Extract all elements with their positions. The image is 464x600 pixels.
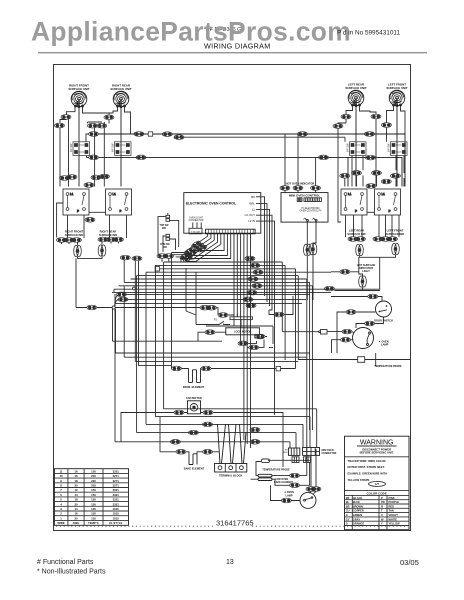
- terminal block funnels: [218, 424, 247, 464]
- svg-text:3271: 3271: [113, 484, 120, 488]
- wire B1 bottom stubs: [68, 215, 127, 238]
- connector bake right: [203, 450, 213, 455]
- long bus upper: [99, 134, 405, 187]
- wire SW3 drop: [352, 156, 363, 187]
- lock switch assembly: [214, 319, 230, 326]
- wire stack left drops: [124, 260, 138, 366]
- svg-text:INF SW: INF SW: [388, 143, 391, 152]
- svg-text:2: 2: [60, 512, 62, 516]
- connector oven lamp a: [281, 498, 291, 503]
- staircase turn 4: [137, 433, 296, 448]
- surface unit SU2 right rear: [113, 91, 129, 107]
- svg-text:INF SW: INF SW: [347, 143, 350, 152]
- svg-text:COLOR CODE: COLOR CODE: [367, 491, 387, 495]
- svg-text:GREEN: GREEN: [353, 513, 362, 517]
- connector row L f: [114, 237, 124, 242]
- temperature probe upper plug: [298, 357, 364, 363]
- color code r7: [346, 522, 400, 526]
- svg-text:SURFACE UNIT: SURFACE UNIT: [345, 86, 367, 90]
- mid horizontal 1: [113, 340, 223, 342]
- svg-text:6: 6: [60, 493, 62, 497]
- svg-text:5: 5: [60, 498, 62, 502]
- connector above B4: [381, 179, 391, 184]
- mid horizontal 3: [124, 356, 307, 358]
- connector pre-switch row d: [100, 174, 110, 179]
- svg-text:P: P: [381, 496, 383, 500]
- svg-text:P: P: [312, 219, 314, 221]
- svg-text:IND: IND: [162, 228, 166, 230]
- wire SU1 right to SU2: [69, 107, 110, 187]
- svg-text:200: 200: [91, 484, 96, 488]
- svg-text:3271: 3271: [113, 479, 120, 483]
- connector row L a: [57, 238, 67, 243]
- svg-text:3271: 3271: [113, 474, 120, 478]
- svg-text:105: 105: [91, 516, 96, 520]
- svg-text:3321: 3321: [113, 502, 120, 506]
- svg-text:O: O: [346, 522, 348, 526]
- connector row L b: [64, 238, 74, 243]
- svg-text:PINK: PINK: [389, 496, 395, 500]
- svg-text:TOP SW: TOP SW: [160, 225, 170, 227]
- svg-text:LAMP: LAMP: [381, 343, 389, 347]
- wire gauge table: [54, 469, 128, 526]
- connector door bottom: [365, 321, 375, 326]
- bus line 9: [114, 288, 379, 290]
- ladder connector 2: [250, 263, 260, 268]
- wire SU4 center drop: [396, 106, 398, 187]
- svg-text:BL: BL: [346, 500, 350, 504]
- svg-text:P DIODE: P DIODE: [191, 231, 200, 233]
- infinite switch SW4: [391, 142, 408, 156]
- connector preB3 b: [352, 171, 362, 176]
- connector SU3 a: [341, 114, 351, 119]
- staircase turn 1: [164, 409, 317, 448]
- svg-text:AppliancePartsPros.com: AppliancePartsPros.com: [31, 17, 351, 47]
- svg-text:GRAY: GRAY: [353, 517, 361, 521]
- oven lamp circle: [300, 492, 316, 508]
- EOC strip fanout down: [234, 234, 251, 448]
- EOC strip fanout mid: [181, 234, 231, 262]
- junction square broil: [276, 367, 280, 371]
- connector SU1 b: [55, 123, 65, 128]
- svg-text:* Non-Illustrated Parts: * Non-Illustrated Parts: [37, 569, 106, 576]
- svg-text:CU: CU: [346, 509, 350, 513]
- connector door switch: [346, 310, 356, 315]
- SU1 terminals: [75, 105, 84, 108]
- svg-text:BROWN: BROWN: [353, 504, 363, 508]
- connector lock e: [238, 341, 248, 346]
- oven light terminals: [367, 332, 371, 346]
- wire oven lamp: [271, 449, 317, 501]
- door switch S1: [376, 301, 392, 317]
- staircase turn 3: [146, 424, 303, 447]
- connector node left: [87, 305, 97, 310]
- svg-text:SURFACE IND: SURFACE IND: [99, 233, 117, 237]
- svg-text:BAKE ELEMENT: BAKE ELEMENT: [184, 466, 205, 470]
- svg-text:LOCK MOTOR: LOCK MOTOR: [234, 330, 252, 334]
- bus line 8: [119, 286, 313, 430]
- wire SU3 left drop: [338, 106, 353, 223]
- wire fan: [121, 413, 283, 454]
- connector lock d: [205, 330, 215, 335]
- svg-text:Y: Y: [381, 522, 383, 526]
- indicator lamp IL1: [74, 245, 82, 256]
- connector preB3 a: [340, 174, 350, 179]
- svg-text:YELLOW STRIPE: YELLOW STRIPE: [348, 478, 370, 482]
- EOC pin leaders: [256, 197, 261, 221]
- cascade connector 3: [179, 252, 190, 261]
- svg-text:18: 18: [74, 498, 78, 502]
- wire lock motor right: [241, 337, 267, 348]
- dotted leader line: [56, 525, 408, 527]
- svg-text:P8: P8: [285, 450, 288, 452]
- svg-text:TEMP°C: TEMP°C: [88, 521, 99, 525]
- svg-text:ORANGE: ORANGE: [353, 522, 365, 526]
- wire lamp U connect right: [360, 255, 396, 257]
- cascade connector 4b: [184, 247, 195, 256]
- wire preB3: [345, 175, 377, 186]
- connector MOC b: [293, 186, 303, 191]
- wire gauge rows: [57, 469, 122, 525]
- svg-text:BTM SW: BTM SW: [160, 244, 170, 246]
- svg-text:TEMPERATURE PROBE: TEMPERATURE PROBE: [374, 365, 402, 368]
- connector pre-switch row c: [91, 175, 101, 180]
- wire bake: [160, 417, 219, 454]
- svg-text:AWG: AWG: [73, 521, 80, 525]
- switch sq component: [319, 330, 327, 335]
- wire bus lower stub: [87, 156, 89, 158]
- ladder connector 7: [243, 297, 253, 302]
- cascade connector 3b: [197, 244, 208, 253]
- fan motor box: [188, 401, 201, 414]
- wire B1 left exit: [57, 203, 63, 238]
- ladder connector 5: [252, 284, 262, 289]
- connector bus upper left: [89, 132, 99, 137]
- bus left bends: [114, 262, 164, 442]
- bus line 6: [131, 279, 307, 476]
- connector row L e: [106, 237, 116, 242]
- connector between units: [84, 183, 94, 188]
- wire B3 B4 bridge: [367, 211, 375, 213]
- cascade connector 1: [191, 240, 202, 249]
- svg-text:TRACER WIRE: WIRE COLOR: TRACER WIRE: WIRE COLOR: [348, 459, 386, 463]
- svg-text:7: 7: [60, 488, 62, 492]
- indicator lamp MOC b: [309, 244, 317, 255]
- bus line 3: [160, 269, 296, 369]
- bus line 7: [124, 282, 309, 430]
- connector plugs bottom a: [157, 254, 167, 259]
- connector bottom row e: [203, 422, 213, 427]
- surface unit SU1 right front: [71, 91, 87, 107]
- svg-text:150: 150: [91, 469, 96, 473]
- wire lock c: [206, 315, 273, 347]
- svg-text:16: 16: [74, 469, 78, 473]
- svg-text:IND: IND: [163, 247, 167, 249]
- connector MOC c: [311, 186, 321, 191]
- wire door switch: [337, 312, 384, 353]
- mid horizontal 5: [139, 365, 172, 367]
- wire MOC feeds: [285, 134, 316, 193]
- svg-text:WHITE: WHITE: [389, 517, 398, 521]
- svg-text:3321: 3321: [113, 498, 120, 502]
- oven light circle: [353, 328, 374, 349]
- cascade connector 2: [194, 242, 205, 251]
- connector lowoven b: [290, 483, 300, 488]
- svg-text:200: 200: [91, 474, 96, 478]
- junction square bus3: [155, 267, 159, 271]
- staircase turn 5: [115, 442, 290, 448]
- node feed wire: [76, 307, 112, 309]
- svg-text:TO ELECTRONIC: TO ELECTRONIC: [301, 208, 320, 210]
- SU4 terminals: [393, 104, 402, 107]
- wire bus stub: [86, 134, 89, 142]
- svg-text:NOTED FIRST, STRIPE NEXT.: NOTED FIRST, STRIPE NEXT.: [348, 465, 385, 469]
- svg-text:INF SW: INF SW: [70, 143, 73, 152]
- svg-text:105: 105: [91, 507, 96, 511]
- svg-text:BROIL ELEMENT: BROIL ELEMENT: [183, 385, 205, 389]
- color code r6: [346, 517, 397, 521]
- infinite switch SW1: [73, 142, 90, 156]
- svg-text:16: 16: [74, 474, 78, 478]
- warning GY oval: [369, 481, 386, 486]
- wire pair mid: [88, 122, 105, 187]
- connector pre-switch row a: [60, 176, 70, 181]
- switch block B2: [106, 189, 132, 215]
- connector lock g: [255, 334, 265, 339]
- mid horizontal 4: [135, 360, 298, 362]
- svg-text:150: 150: [91, 488, 96, 492]
- connector SU1 a: [61, 115, 71, 120]
- svg-text:# Functional Parts: # Functional Parts: [37, 559, 94, 566]
- svg-text:GY: GY: [346, 517, 350, 521]
- svg-text:T: T: [381, 509, 383, 513]
- color code r2: [346, 500, 399, 504]
- wire lamp feeds: [62, 242, 119, 245]
- warning box: [345, 436, 410, 530]
- infinite switch SW2: [115, 142, 132, 156]
- svg-text:MINI OVEN CONTROL: MINI OVEN CONTROL: [289, 194, 321, 198]
- svg-text:12: 12: [74, 488, 78, 492]
- warning title underline: [357, 445, 397, 447]
- connector row R a: [348, 237, 358, 242]
- connector row L c: [72, 238, 82, 243]
- wire SU1 left drop: [60, 107, 75, 187]
- connector oven light a: [342, 329, 352, 334]
- connector bus upper m2: [298, 132, 308, 137]
- junction circle b: [133, 287, 136, 290]
- svg-text:1015: 1015: [113, 512, 120, 516]
- svg-text:105: 105: [91, 512, 96, 516]
- svg-text:9: 9: [60, 479, 62, 483]
- svg-text:P: P: [303, 219, 305, 221]
- connector below HSI: [325, 286, 335, 291]
- wire cascade to broil: [171, 253, 173, 369]
- connector HSI bottom: [368, 294, 378, 299]
- lock motor terminals: [255, 335, 263, 338]
- plug connector A: [166, 213, 170, 221]
- bus line 5: [137, 276, 299, 360]
- wire lock right: [269, 296, 293, 315]
- svg-text:10: 10: [59, 474, 63, 478]
- switch block B4: [375, 189, 401, 215]
- svg-text:3: 3: [60, 507, 62, 511]
- connector bus upper m1b: [162, 132, 172, 137]
- color code r3: [346, 504, 394, 508]
- svg-text:1015: 1015: [113, 507, 120, 511]
- EOC connector strip: [206, 229, 256, 234]
- staircase turn 2: [156, 417, 311, 448]
- svg-text:YELLOW: YELLOW: [389, 522, 401, 526]
- svg-text:G/Y: G/Y: [375, 482, 380, 486]
- MOC terminals: [303, 218, 317, 221]
- connector bus upper m3: [365, 132, 375, 137]
- svg-text:SURFACE IND: SURFACE IND: [65, 233, 83, 237]
- connector bake left: [176, 450, 186, 455]
- svg-text:SURFACE IND: SURFACE IND: [347, 232, 365, 236]
- terminal block: [215, 464, 247, 473]
- connector row R e: [388, 237, 398, 242]
- connector broil right: [201, 366, 211, 371]
- connector fan right: [203, 410, 213, 415]
- svg-text:LO OUT: LO OUT: [245, 213, 256, 217]
- svg-text:16: 16: [74, 512, 78, 516]
- svg-text:SURFACE UNIT: SURFACE UNIT: [386, 86, 408, 90]
- connector SU3 b: [333, 124, 343, 129]
- temperature probe lower plug: [262, 454, 311, 468]
- wire lowoven: [251, 462, 310, 486]
- EOC p-diode box: [189, 228, 202, 234]
- connector SU4 a: [382, 123, 392, 128]
- indicator lamp IL4: [392, 243, 400, 254]
- svg-text:HOT OVEN INDICATOR: HOT OVEN INDICATOR: [286, 182, 315, 186]
- svg-text:UL STYLE: UL STYLE: [109, 521, 123, 525]
- ladder connector 4: [248, 277, 258, 282]
- MOC hatch connector b: [304, 198, 321, 202]
- connector below B1: [85, 218, 95, 223]
- switch block B3: [341, 189, 367, 215]
- svg-text:WIRING DIAGRAM: WIRING DIAGRAM: [204, 42, 271, 51]
- infinite switch SW3: [350, 142, 367, 156]
- svg-text:3321: 3321: [113, 469, 120, 473]
- header rule: [38, 52, 427, 54]
- connector bus upper m1: [134, 132, 144, 137]
- wire node drops: [113, 309, 116, 353]
- schematic border: [54, 65, 411, 531]
- surface unit SU4 left front: [389, 90, 405, 106]
- wire lock ab: [186, 268, 218, 325]
- wire SU4 right: [401, 106, 406, 135]
- wire plug left: [158, 217, 166, 256]
- svg-text:20: 20: [74, 484, 78, 488]
- mid horizontal 2: [116, 352, 310, 354]
- bus line 4: [146, 271, 331, 273]
- svg-text:3321: 3321: [113, 493, 120, 497]
- EOC strip fanout left: [172, 234, 221, 261]
- connector bus lower m3: [366, 155, 376, 160]
- svg-text:L1: L1: [252, 207, 256, 211]
- connector SU1-SU2: [104, 115, 114, 120]
- svg-text:BEFORE SERVICING UNIT.: BEFORE SERVICING UNIT.: [360, 451, 394, 455]
- svg-text:20: 20: [74, 502, 78, 506]
- bake element: [189, 454, 197, 465]
- wire to oven lamp: [356, 324, 365, 329]
- svg-text:W: W: [381, 517, 384, 521]
- connector fan left: [174, 410, 184, 415]
- wire oven light: [282, 332, 353, 353]
- indicator lamp IL3: [356, 244, 364, 255]
- warning divider: [345, 456, 409, 458]
- bus line 1: [164, 262, 283, 332]
- wire SU1 center drop: [78, 107, 80, 187]
- connector lowoven a: [290, 473, 300, 478]
- wire SU2 center drop: [120, 107, 122, 187]
- wire HSI bottom: [331, 297, 382, 302]
- lock cam bar: [230, 314, 252, 328]
- connector preB4 b: [391, 174, 401, 179]
- svg-text:OVEN CONTROL P4: OVEN CONTROL P4: [300, 211, 322, 213]
- svg-text:03/05: 03/05: [400, 558, 419, 567]
- svg-text:1: 1: [60, 516, 62, 520]
- svg-text:150: 150: [91, 493, 96, 497]
- ladder connector 3: [253, 270, 263, 275]
- connector bottom row c: [189, 430, 199, 435]
- wire lock motor left: [198, 332, 226, 341]
- svg-text:150: 150: [91, 498, 96, 502]
- connector bottom row d: [250, 428, 260, 433]
- P8 connector: [283, 448, 300, 455]
- connector oven lamp c: [311, 487, 321, 492]
- connector lock c: [218, 313, 228, 318]
- wire SW4 drop: [396, 156, 404, 187]
- svg-text:CONNECTOR: CONNECTOR: [189, 220, 204, 222]
- svg-text:COPPER: COPPER: [353, 509, 364, 513]
- svg-text:INF SW: INF SW: [112, 143, 115, 152]
- svg-text:VIOLET: VIOLET: [389, 513, 399, 517]
- long bus upper second: [174, 137, 345, 142]
- mini oven control box U2: [281, 193, 328, 223]
- connector preB4 a: [372, 171, 382, 176]
- connector bottom row b: [250, 440, 260, 445]
- connector bus lower m2: [319, 155, 329, 160]
- temperature probe upper line: [365, 353, 410, 366]
- svg-text:BLUE: BLUE: [353, 500, 360, 504]
- svg-text:EXAMPLE: GREEN WIRE WITH: EXAMPLE: GREEN WIRE WITH: [348, 472, 388, 476]
- connector MOC a: [280, 186, 290, 191]
- svg-text:TAN: TAN: [389, 509, 394, 513]
- connector row R d: [381, 237, 391, 242]
- indicator lamp MOC a: [304, 244, 312, 255]
- connector HSI left: [340, 270, 350, 275]
- connector lock right: [274, 312, 284, 317]
- svg-text:RED: RED: [389, 504, 395, 508]
- connector stack left b: [132, 256, 142, 261]
- svg-text:13: 13: [226, 559, 234, 566]
- wire HSI: [331, 257, 380, 290]
- connector mid b: [97, 123, 107, 128]
- warning divider2: [345, 489, 409, 491]
- ladder connector 1: [245, 256, 255, 261]
- color code table: [345, 495, 410, 529]
- mini oven connector grid: [303, 448, 320, 456]
- svg-text:BK: BK: [251, 195, 255, 199]
- svg-text:MINI OVEN: MINI OVEN: [322, 450, 334, 452]
- connector bus lower left: [89, 155, 99, 160]
- svg-text:BR: BR: [346, 504, 350, 508]
- svg-text:8: 8: [60, 484, 62, 488]
- wire MOC drops: [307, 221, 316, 300]
- svg-text:4: 4: [60, 502, 62, 506]
- svg-text:L2 IN: L2 IN: [248, 219, 255, 223]
